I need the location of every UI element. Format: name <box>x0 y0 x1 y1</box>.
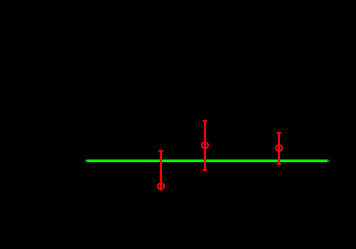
data point 1 marker <box>158 183 165 189</box>
data point 3 error bar <box>277 133 281 164</box>
baseline (green horizontal line) <box>87 160 327 163</box>
data point 2 error bar <box>203 121 207 170</box>
baseline left faded tip <box>85 160 87 162</box>
baseline right faded tip <box>327 160 330 162</box>
data point 3 marker <box>276 145 283 151</box>
data point 2 marker <box>202 142 209 148</box>
data point 1 error bar <box>159 151 164 190</box>
